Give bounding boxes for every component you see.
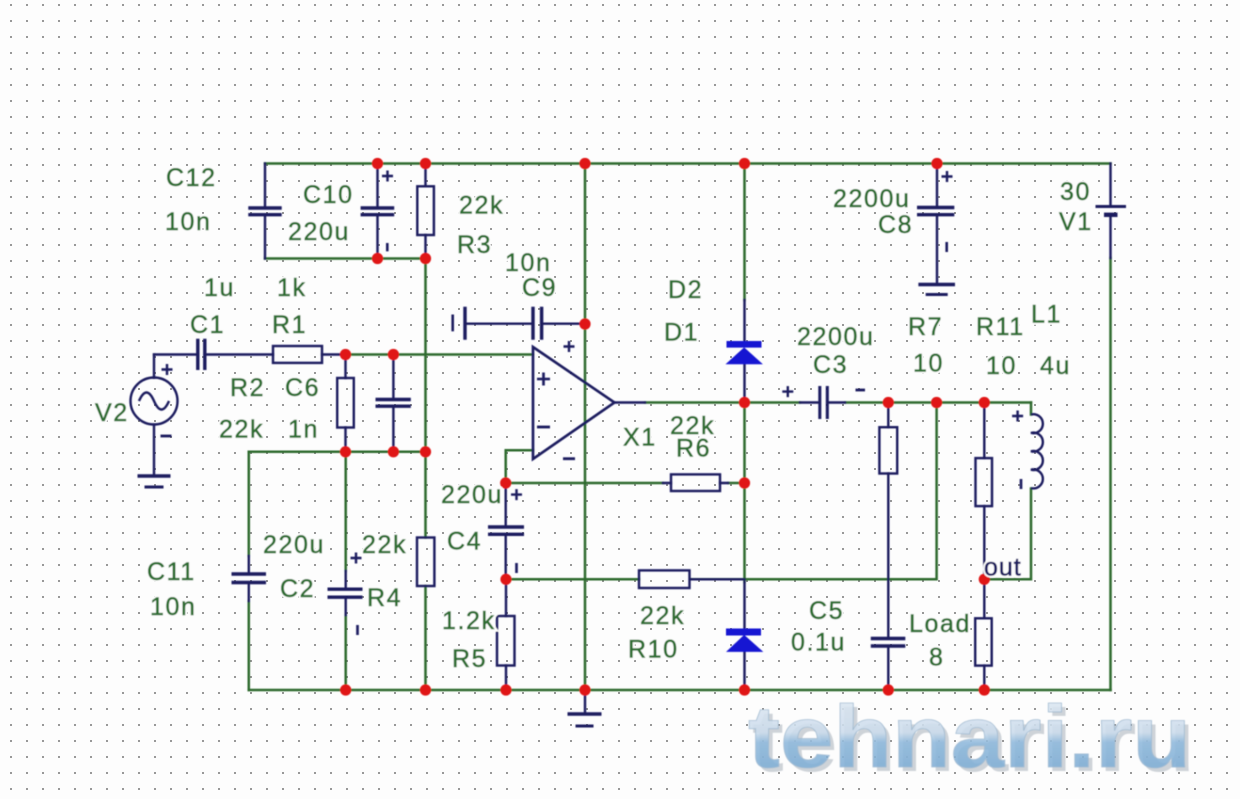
svg-text:Load: Load <box>909 610 971 638</box>
node bottom rail junctions <box>340 684 351 695</box>
capacitor C6 plates <box>376 400 411 407</box>
wire V2 bottom lead <box>153 425 155 475</box>
svg-text:22k: 22k <box>640 602 685 630</box>
wire D1 leads <box>743 300 745 403</box>
svg-text:1u: 1u <box>204 274 235 302</box>
svg-text:C8: C8 <box>878 211 913 239</box>
capacitor C3 plates <box>820 386 828 419</box>
svg-text:V1: V1 <box>1059 208 1093 236</box>
wire R5 leads <box>505 579 507 690</box>
wire C9 leads <box>465 323 585 325</box>
wire R3-R4 vertical <box>424 259 427 691</box>
svg-text:C11: C11 <box>147 558 196 586</box>
op-amp X1 <box>533 347 615 459</box>
resistor R2 <box>337 378 354 428</box>
wire main ground stub <box>584 690 586 713</box>
svg-text:4u: 4u <box>1040 352 1071 380</box>
svg-text:V2: V2 <box>95 399 129 427</box>
wire y=579 line <box>506 403 937 580</box>
battery V1 <box>1096 205 1127 208</box>
resistor R4 <box>417 538 434 587</box>
svg-text:X1: X1 <box>623 424 657 452</box>
C8 minus tick <box>945 242 948 252</box>
svg-text:R10: R10 <box>628 636 679 664</box>
svg-text:D1: D1 <box>664 319 699 347</box>
C3 plus mark <box>782 386 793 397</box>
wire C11 branch <box>248 452 251 690</box>
wire R11-Load branch leads <box>983 403 985 691</box>
svg-text:30: 30 <box>1060 178 1091 206</box>
svg-text:1.2k: 1.2k <box>442 607 496 635</box>
svg-text:10: 10 <box>986 352 1017 380</box>
node out <box>979 574 990 585</box>
node input line junctions <box>340 349 351 360</box>
svg-text:R2: R2 <box>230 374 265 402</box>
opamp top plus <box>564 341 575 352</box>
wire R2 leads <box>344 355 346 452</box>
node block bottom junctions <box>372 253 383 264</box>
wire opamp supply vertical <box>584 164 587 691</box>
svg-text:C1: C1 <box>190 311 225 339</box>
wire R6 line y=483 <box>506 482 745 485</box>
svg-text:22k: 22k <box>362 531 407 559</box>
wire right rail <box>1109 258 1112 690</box>
resistor R10 <box>639 570 690 588</box>
svg-text:2200u: 2200u <box>833 185 911 213</box>
wire R3 leads <box>424 164 426 259</box>
wire R7-C5 branch leads <box>887 403 889 691</box>
svg-text:R6: R6 <box>676 435 711 463</box>
V2 plus mark <box>162 364 173 375</box>
svg-text:22k: 22k <box>459 192 504 220</box>
svg-text:220u: 220u <box>441 481 503 509</box>
wire L1 branch <box>984 403 1031 580</box>
wire C10/C12 block bottom bar <box>265 257 426 260</box>
capacitor C4 plates <box>488 527 524 534</box>
svg-text:C9: C9 <box>522 274 557 302</box>
capacitor C12 plates <box>248 208 281 215</box>
svg-text:R1: R1 <box>272 311 307 339</box>
svg-text:2200u: 2200u <box>797 323 875 351</box>
wire R6 lead stubs <box>663 482 728 484</box>
wire feedback minus input <box>506 450 533 483</box>
opamp inside minus <box>537 426 550 429</box>
capacitor C8 plates <box>917 208 954 215</box>
C3 minus mark <box>856 389 866 392</box>
svg-text:1k: 1k <box>277 274 307 302</box>
ground of V2 <box>138 474 171 477</box>
svg-text:220u: 220u <box>263 531 325 559</box>
capacitor C11 plates <box>232 574 267 583</box>
diode D2 <box>727 629 763 651</box>
wire C10 leads <box>376 164 378 259</box>
wire node line y=452 <box>249 451 426 454</box>
svg-text:tehnari.ru: tehnari.ru <box>748 687 1191 786</box>
wire C2 branch <box>344 452 347 690</box>
svg-text:out: out <box>984 554 1022 582</box>
C2 plus mark <box>351 553 362 564</box>
node y452 junctions <box>340 446 351 457</box>
wire R10 right lead <box>690 578 745 580</box>
wire V1 leads <box>1109 164 1111 259</box>
resistor R11 <box>976 458 993 506</box>
svg-text:8: 8 <box>929 644 945 672</box>
node top rail junctions <box>372 158 383 169</box>
C10 plus mark <box>382 171 393 182</box>
main ground symbol <box>568 712 602 715</box>
C2 minus tick <box>356 625 359 635</box>
svg-text:C12: C12 <box>166 164 217 192</box>
capacitor C2 plates <box>328 589 363 597</box>
svg-text:L1: L1 <box>1031 301 1062 329</box>
capacitor C9 <box>451 315 454 332</box>
wire top rail V+ <box>265 162 1111 165</box>
svg-text:1n: 1n <box>288 416 319 444</box>
wire bottom rail <box>249 689 1111 692</box>
wire D1 column <box>743 164 746 583</box>
wire C12 leads <box>264 164 266 259</box>
svg-text:0.1u: 0.1u <box>791 629 846 657</box>
svg-text:D2: D2 <box>668 276 703 304</box>
capacitor C10 plates <box>361 208 395 215</box>
svg-text:22k: 22k <box>219 416 264 444</box>
resistor R6 <box>671 474 720 491</box>
opamp inside plus <box>537 373 550 386</box>
svg-text:220u: 220u <box>288 218 350 246</box>
wire V2 top lead <box>153 355 155 378</box>
svg-text:C4: C4 <box>447 528 482 556</box>
L1 plus mark <box>1012 411 1023 422</box>
C8 plus mark <box>942 171 953 182</box>
wire C2 leads <box>345 571 347 615</box>
voltage source V2 <box>131 378 178 425</box>
node C4 bottom <box>500 574 511 585</box>
inductor L1 <box>1031 414 1043 488</box>
svg-text:10n: 10n <box>150 593 197 621</box>
C4 plus mark <box>511 489 522 500</box>
capacitor C5 plates <box>871 639 906 647</box>
svg-text:R3: R3 <box>457 231 492 259</box>
L1 minus tick <box>1020 479 1023 489</box>
C10 minus tick <box>386 243 389 251</box>
svg-text:C10: C10 <box>303 181 354 209</box>
V2 minus mark <box>161 435 172 438</box>
ground of C8 <box>918 283 955 286</box>
resistor R7 <box>879 427 897 473</box>
capacitor C1 plates <box>198 339 205 370</box>
wire opamp output lead <box>615 401 646 403</box>
wire C11 leads <box>248 556 250 601</box>
svg-text:R7: R7 <box>908 313 943 341</box>
svg-text:C2: C2 <box>280 575 315 603</box>
diode D1 <box>727 342 762 364</box>
svg-text:C5: C5 <box>809 597 844 625</box>
svg-text:10n: 10n <box>165 208 212 236</box>
resistor R1 <box>273 346 322 363</box>
wire D2 leads <box>743 582 745 690</box>
node C9 out <box>579 318 590 329</box>
watermark tehnari.ru <box>748 687 1195 790</box>
resistor Load <box>975 618 992 665</box>
wire C3 leads <box>800 401 845 403</box>
resistor R3 <box>417 186 434 235</box>
C4 minus tick <box>515 563 518 573</box>
opamp bottom minus <box>563 457 575 460</box>
wire opamp output <box>645 401 1031 404</box>
wire C8 leads <box>936 164 938 284</box>
resistor R5 <box>497 616 515 666</box>
svg-text:R5: R5 <box>452 645 487 673</box>
wire C6 leads <box>392 355 394 452</box>
svg-text:C6: C6 <box>285 374 320 402</box>
svg-text:R4: R4 <box>367 584 402 612</box>
wire C4 leads <box>505 483 507 579</box>
svg-text:10: 10 <box>913 350 944 378</box>
svg-text:C3: C3 <box>813 351 848 379</box>
wire V2-C1-R1 leads <box>154 353 346 355</box>
wire main input y=354 <box>346 353 534 356</box>
node feedback junctions <box>500 477 511 488</box>
svg-text:10n: 10n <box>505 249 552 277</box>
node output line junctions <box>739 397 750 408</box>
svg-text:R11: R11 <box>976 313 1025 341</box>
